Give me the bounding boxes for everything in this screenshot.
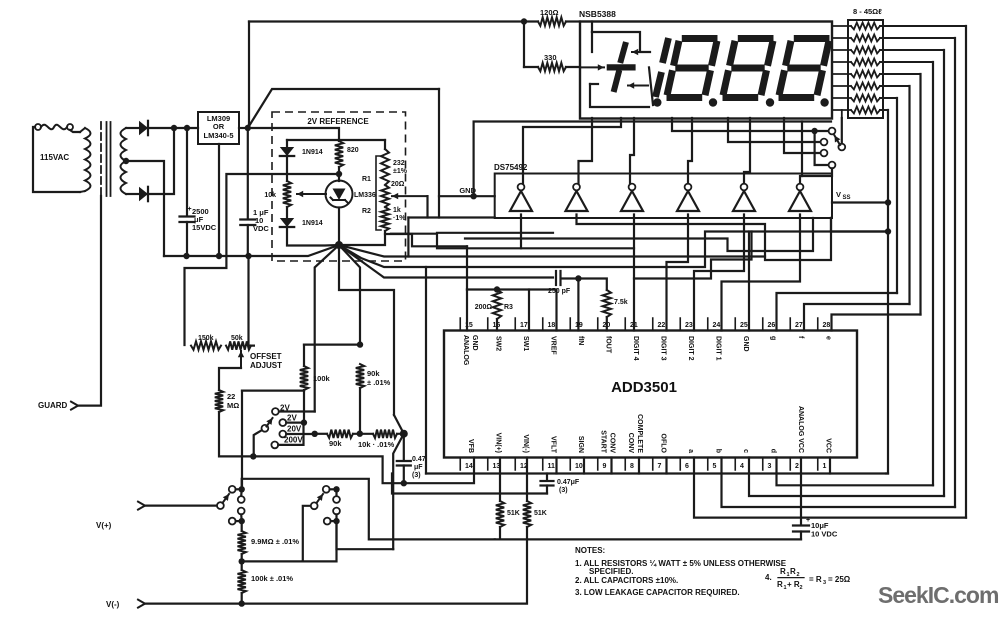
wire wiper to VFB line	[254, 430, 262, 456]
wire +5V into reference	[248, 128, 339, 140]
wire switch top to VIN+ run	[242, 479, 495, 540]
pin7 stub	[665, 458, 667, 474]
pin2 riser to 10uF	[800, 458, 802, 525]
svg-text:VFB: VFB	[467, 439, 474, 453]
wire wiper to DS75492 gnd line	[426, 196, 428, 217]
wire 90k to 10k	[353, 433, 373, 435]
wire display digit3 drop	[784, 118, 821, 153]
range contact 2V top	[272, 408, 279, 415]
decimal point 2	[709, 98, 717, 106]
IC bottom pin ticks	[460, 458, 818, 471]
svg-text:d: d	[770, 449, 777, 453]
svg-text:200Ω: 200Ω	[475, 304, 493, 311]
pin3 d-segment link	[777, 458, 934, 486]
svg-text:1N914: 1N914	[302, 149, 323, 156]
svg-text:SeekIC.com: SeekIC.com	[878, 582, 999, 608]
ladder resistor row 4	[851, 59, 880, 66]
junction	[357, 431, 363, 437]
svg-text:9.9MΩ ± .01%: 9.9MΩ ± .01%	[251, 537, 299, 546]
staircase y278 to vss	[634, 232, 752, 279]
sign frame drop from top	[591, 22, 593, 33]
svg-text:R3: R3	[504, 304, 513, 311]
svg-text:18: 18	[548, 322, 556, 329]
driver buffer 4	[677, 191, 699, 211]
svg-text:ANALOG: ANALOG	[462, 335, 469, 366]
svg-text:g: g	[770, 336, 777, 340]
wire select jumper	[815, 131, 829, 165]
svg-text:23: 23	[685, 322, 693, 329]
input switch S1a wiper	[217, 502, 224, 509]
svg-text:15VDC: 15VDC	[192, 223, 217, 232]
digit 8 first	[682, 35, 718, 42]
capacitor 0.47uF number2	[546, 474, 548, 480]
vss bus to supply line	[886, 472, 888, 474]
svg-text:20Ω: 20Ω	[391, 181, 405, 188]
resistor R2 1k	[381, 207, 389, 231]
pin24 staircase to buffer6	[722, 215, 801, 331]
svg-text:OFFSET: OFFSET	[250, 352, 282, 361]
segment line f vertical	[908, 86, 910, 304]
pin27 f link	[804, 304, 910, 331]
IC U1 ADD3501 box	[444, 331, 857, 458]
svg-text:+: +	[806, 517, 810, 524]
transformer T1 secondary	[121, 128, 127, 194]
junction	[885, 199, 891, 205]
wire top feed	[287, 139, 339, 141]
offset wiper arrow	[240, 351, 242, 368]
svg-text:= 25Ω: = 25Ω	[828, 575, 851, 584]
segment bus comb	[880, 25, 966, 27]
svg-text:COMPLETE: COMPLETE	[636, 414, 643, 453]
svg-text:R1: R1	[362, 176, 371, 183]
driver U3 DS75492 box	[495, 174, 832, 219]
svg-text:22: 22	[658, 322, 666, 329]
ladder left lead	[832, 49, 851, 51]
ladder left lead	[832, 73, 851, 75]
digit 8 third	[794, 35, 830, 42]
center tap wire to ground rail	[126, 161, 164, 256]
wire secondary top to D1	[126, 127, 139, 129]
driver buffer 6	[789, 191, 811, 211]
ladder resistor row 8	[851, 107, 880, 114]
resistor 9.9M	[241, 521, 243, 531]
divider node	[400, 430, 408, 438]
svg-text:200V: 200V	[284, 436, 303, 445]
ladder row8 left lead	[832, 109, 851, 111]
junction	[494, 286, 500, 292]
svg-text:8 - 45Ωℓ: 8 - 45Ωℓ	[853, 7, 882, 16]
svg-text:11: 11	[548, 463, 556, 470]
svg-text:7.5k: 7.5k	[614, 299, 628, 306]
ladder left lead	[832, 61, 851, 63]
AC plug P1	[35, 124, 41, 130]
ladder left lead	[832, 85, 851, 87]
star ray to 90k vertical	[339, 245, 360, 345]
junction	[312, 431, 318, 437]
S1a contact 2	[238, 496, 245, 503]
wire switch top riser	[241, 391, 243, 490]
wire 50k right to ground rail	[249, 256, 256, 346]
line y233 middle	[437, 232, 553, 234]
svg-text:= R: = R	[809, 575, 822, 584]
svg-text:3: 3	[823, 580, 826, 586]
wire 7.5k to pin20	[606, 317, 608, 331]
svg-text:4.: 4.	[765, 573, 772, 582]
svg-text:OFLO: OFLO	[660, 434, 667, 454]
segment line g vertical	[896, 98, 898, 293]
S1b contact bottom	[324, 518, 331, 525]
pin19 riser	[577, 279, 579, 331]
segment line e vertical	[919, 74, 921, 315]
wire contact D return	[802, 168, 832, 176]
junction	[885, 228, 891, 234]
svg-text:0.47μF: 0.47μF	[557, 479, 580, 486]
ladder resistor row 5	[851, 71, 880, 78]
sign digit frame	[592, 32, 650, 52]
wire D2 to +raw node	[147, 128, 174, 194]
digit 1 segment top	[663, 38, 669, 63]
supply line under IC	[426, 472, 886, 474]
10k wiper arrow	[297, 193, 326, 195]
wire switch to 100k bottom	[242, 390, 304, 392]
driver buffer 5	[733, 191, 755, 211]
ladder row8 to select wiper	[841, 110, 843, 118]
svg-text:150k: 150k	[198, 335, 214, 342]
wire +5V top rail to display	[249, 20, 524, 22]
svg-text:b: b	[715, 449, 722, 453]
junction	[184, 125, 190, 131]
pin12 51k drop	[526, 458, 528, 502]
svg-text:GND: GND	[742, 336, 749, 352]
wire display drop to buffer4	[688, 118, 692, 184]
svg-text:10k · .01%: 10k · .01%	[358, 440, 395, 449]
svg-text:ADJUST: ADJUST	[250, 361, 282, 370]
svg-text:+: +	[188, 206, 192, 213]
svg-text:± .01%: ± .01%	[367, 378, 391, 387]
svg-text:51K: 51K	[507, 510, 520, 517]
svg-text:VDC: VDC	[253, 224, 269, 233]
pin1 vcc link	[829, 458, 831, 474]
buffer2 input drop	[577, 215, 832, 261]
S1b contact top	[323, 486, 330, 493]
select switch wiper	[838, 144, 845, 151]
svg-text:SIGN: SIGN	[577, 436, 584, 453]
svg-text:2V: 2V	[287, 414, 297, 423]
svg-text:a: a	[687, 449, 694, 453]
svg-text:51K: 51K	[534, 510, 547, 517]
wire secondary bottom to D2	[126, 193, 139, 195]
wire to 330 resistor	[523, 22, 525, 68]
svg-text:27: 27	[795, 322, 803, 329]
svg-text:(3): (3)	[559, 487, 568, 494]
junction	[401, 480, 407, 486]
svg-text:fIN: fIN	[577, 336, 584, 345]
decimal point 3	[766, 98, 774, 106]
segment line d vertical	[932, 62, 934, 485]
resistor 50k pot	[226, 341, 251, 349]
svg-text:SS: SS	[843, 195, 851, 201]
select contact B	[821, 139, 828, 146]
line y238 staircase	[465, 218, 813, 251]
svg-text:R2: R2	[362, 208, 371, 215]
junction	[216, 253, 222, 259]
digit 8 second	[738, 35, 774, 42]
svg-text:NSB5388: NSB5388	[579, 9, 616, 19]
svg-text:ADD3501: ADD3501	[611, 379, 677, 396]
junction	[333, 486, 339, 492]
GND riser to display	[474, 122, 831, 197]
pin21 riser to buffer3	[633, 215, 635, 331]
wire 100k bottom	[303, 390, 305, 423]
pin10 stub	[583, 458, 585, 474]
S1b contact 2	[333, 496, 340, 503]
diode D3 1N914	[280, 147, 294, 156]
wire 2V output to left	[185, 174, 340, 345]
svg-text:3. LOW LEAKAGE CAPACITOR REQU: 3. LOW LEAKAGE CAPACITOR REQUIRED.	[575, 588, 740, 597]
svg-text:±1%: ±1%	[393, 168, 408, 175]
svg-text:50k: 50k	[231, 335, 243, 342]
V+ wire	[145, 505, 217, 507]
capacitor C1 2500uF lead	[186, 128, 188, 215]
svg-text:μF: μF	[414, 464, 423, 471]
junction	[239, 486, 245, 492]
svg-text:DIGIT 2: DIGIT 2	[687, 336, 694, 361]
wire display drop to buffer3	[630, 118, 634, 184]
resistor 51k a	[496, 501, 504, 527]
wire 22M to VFB line	[219, 412, 404, 483]
junction	[333, 518, 339, 524]
wire +5V drop to DS75492 area	[438, 89, 440, 218]
junction	[301, 419, 307, 425]
wire 330 arrow into sign	[580, 66, 604, 68]
svg-text:2: 2	[800, 585, 803, 591]
driver buffer 3	[621, 191, 643, 211]
wire box corner jog to vss bus	[831, 218, 888, 232]
pin8 stub	[638, 458, 640, 474]
range switch wiper	[262, 425, 269, 432]
pin4 c-segment link	[749, 458, 944, 497]
resistor R3 200ohm	[493, 290, 501, 320]
svg-text:CONV: CONV	[609, 433, 616, 454]
svg-text:VREF: VREF	[550, 336, 557, 355]
svg-text:DIGIT 4: DIGIT 4	[632, 336, 639, 361]
resistor 51k b	[523, 501, 531, 527]
svg-text:DIGIT 3: DIGIT 3	[660, 336, 667, 361]
pin5 b-segment link	[722, 458, 956, 508]
svg-text:c: c	[742, 449, 749, 453]
select wiper arrow	[835, 136, 841, 146]
segment line b vertical	[954, 38, 956, 507]
supply line left riser	[425, 267, 427, 474]
junction 9.9M bottom	[241, 554, 243, 570]
svg-text:R: R	[780, 567, 786, 576]
wire node to VFB pin14	[404, 458, 474, 484]
wire +5V diagonal branch	[248, 89, 439, 128]
ladder resistor row 2	[851, 35, 880, 42]
R3 top rail	[467, 290, 557, 331]
range contact 20V	[279, 431, 286, 438]
rectifier diode D2	[139, 187, 148, 201]
pot wiper arrow from right	[392, 195, 428, 197]
svg-text:1: 1	[823, 463, 827, 470]
star ray to 250pF line	[339, 245, 553, 278]
diode D4 1N914	[280, 218, 294, 227]
svg-text:VCC: VCC	[825, 438, 832, 453]
sign plus segment upper	[620, 42, 626, 63]
svg-text:GUARD: GUARD	[38, 401, 68, 410]
svg-text:232: 232	[393, 160, 405, 167]
star ray long line y256	[339, 245, 765, 257]
resistor string R1 232	[384, 140, 386, 149]
svg-text:5: 5	[713, 463, 717, 470]
svg-text:14: 14	[465, 463, 473, 470]
svg-text:OR: OR	[213, 122, 225, 131]
range contact 200V	[271, 442, 278, 449]
zener LM336	[326, 181, 353, 208]
pin13 51k drop	[499, 458, 501, 502]
GND wire	[439, 195, 495, 197]
wire R3 to pin16	[496, 319, 498, 331]
svg-text:ANALOG VCC: ANALOG VCC	[797, 406, 804, 453]
ground star node	[335, 241, 343, 249]
resistor 22M	[215, 390, 223, 412]
wire 51k a to vin+ line	[499, 527, 501, 539]
wire to S1b	[242, 506, 311, 562]
wire range to 90k h	[315, 433, 327, 435]
svg-text:1N914: 1N914	[302, 220, 323, 227]
ladder left lead	[832, 97, 851, 99]
svg-text:7: 7	[658, 463, 662, 470]
svg-text:10k: 10k	[264, 192, 276, 199]
sign arrow upper	[632, 51, 650, 53]
svg-text:+ R: + R	[787, 580, 800, 589]
svg-text:V: V	[836, 190, 841, 199]
S1a contact top	[229, 486, 236, 493]
svg-text:8: 8	[630, 463, 634, 470]
svg-text:25: 25	[740, 322, 748, 329]
svg-text:115VAC: 115VAC	[40, 153, 69, 162]
wire offset wiper to 22M	[219, 368, 241, 390]
guard wire to shield	[78, 196, 101, 406]
select contact C	[821, 150, 828, 157]
svg-text:CONV: CONV	[627, 433, 634, 454]
svg-text:MΩ: MΩ	[227, 401, 239, 410]
line y248 from ref	[391, 234, 634, 249]
svg-text:LM340-5: LM340-5	[203, 131, 233, 140]
wire S1b bottom branch	[303, 521, 337, 561]
wire 100k to V- rail	[241, 593, 243, 604]
buffer1 input drop	[520, 215, 522, 249]
resistor 330	[524, 66, 538, 68]
svg-text:GND: GND	[471, 335, 478, 351]
regulator U2 LM309	[198, 112, 239, 144]
ladder resistor row 3	[851, 47, 880, 54]
pin25 gnd riser	[749, 232, 888, 331]
wire to select contact top	[815, 130, 829, 132]
star ray straight down	[339, 245, 394, 415]
capacitor C2 1uF	[240, 218, 255, 220]
svg-text:28: 28	[823, 322, 831, 329]
svg-text:90k: 90k	[367, 369, 380, 378]
junction	[470, 193, 476, 199]
pin11 stub	[555, 458, 557, 474]
svg-text:VFLT: VFLT	[550, 436, 557, 454]
ladder left lead	[832, 37, 851, 39]
resistor 90k horizontal	[327, 430, 353, 438]
wire S1b bottom to divider tap	[337, 521, 394, 549]
wire display sign drop to buffer2	[579, 118, 593, 184]
star ray to range switch	[315, 245, 339, 412]
S1b contact 3	[333, 508, 340, 515]
wire 90k bottom	[359, 388, 361, 434]
junction	[171, 125, 177, 131]
wire VIN+ long line to 10uF	[495, 538, 801, 540]
svg-text:100k ± .01%: 100k ± .01%	[251, 574, 293, 583]
digit 1 segment bottom	[656, 72, 662, 97]
select contact D	[829, 162, 836, 169]
svg-text:22: 22	[227, 392, 235, 401]
svg-text:0.47: 0.47	[412, 456, 426, 463]
pin22 staircase to buffer4	[667, 215, 689, 331]
junction	[183, 253, 189, 259]
ladder resistor row 1	[851, 23, 880, 30]
decimal point 4	[820, 98, 828, 106]
wire 10k to node	[397, 433, 404, 435]
segment line a vertical	[965, 26, 967, 518]
S1a contact bottom	[229, 518, 236, 525]
junction	[575, 275, 581, 281]
wire 10uF return	[800, 532, 802, 540]
bracket R1 R2	[376, 156, 381, 230]
resistor 120ohm	[524, 20, 538, 22]
svg-text:3: 3	[768, 463, 772, 470]
wire R2 bottom to star	[339, 231, 385, 245]
wire analog gnd line	[466, 246, 468, 289]
svg-text:e: e	[825, 336, 832, 340]
sign slash border	[649, 67, 653, 105]
resistor 820	[338, 140, 340, 141]
wire +5V riser to top rail	[248, 22, 249, 129]
driver buffer 2	[566, 191, 588, 211]
vss bus vertical	[887, 110, 889, 474]
2V reference dashed box	[272, 112, 406, 261]
svg-text:4: 4	[740, 463, 744, 470]
LM309 ground lead	[218, 144, 220, 256]
segment line c vertical	[943, 50, 945, 496]
diode D3 1N914 lead	[286, 140, 288, 146]
resistor network 8x45 box	[848, 20, 883, 118]
capacitor 0.47uF number1 lead	[403, 434, 405, 460]
svg-text:LM336: LM336	[354, 192, 376, 199]
svg-text:VIN(+): VIN(+)	[495, 433, 502, 453]
svg-text:START: START	[600, 430, 607, 454]
junction	[245, 253, 251, 259]
wire R1 string top	[339, 139, 385, 141]
svg-text:SW2: SW2	[495, 336, 502, 351]
ladder resistor row 7	[851, 95, 880, 102]
wire display drop to buffer1	[523, 118, 621, 184]
pin15 riser	[466, 290, 468, 331]
transformer T1 primary	[85, 128, 91, 191]
select contact A	[829, 128, 836, 135]
wire to 7.5k	[578, 279, 606, 291]
svg-text:(3): (3)	[412, 472, 421, 479]
junction	[811, 128, 817, 134]
wire LM309 output node	[239, 127, 248, 129]
diode D3 to pot wire	[286, 155, 288, 181]
wire ladder to select wiper	[841, 118, 843, 144]
svg-text:26: 26	[768, 322, 776, 329]
